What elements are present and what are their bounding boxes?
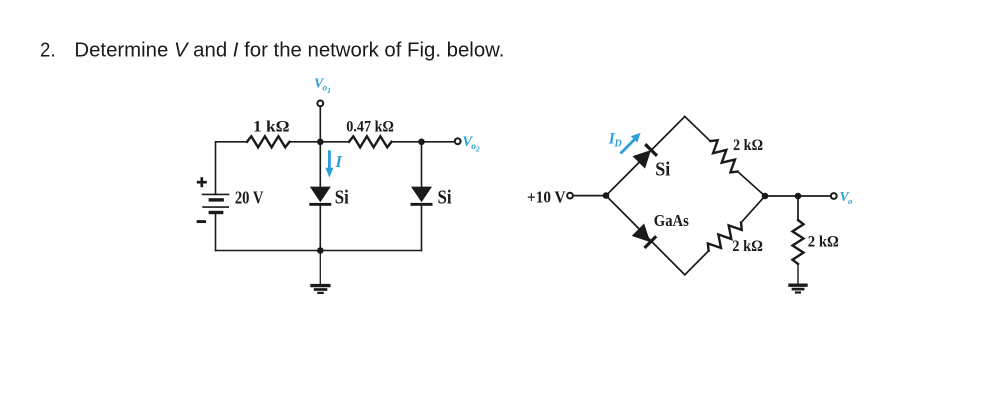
battery plus sign [197, 177, 207, 187]
resistor R4 2 kOhm (bottom-right diagonal) [705, 218, 745, 255]
resistor R5 2 kOhm vertical [793, 220, 804, 264]
wire ground stub left circuit [319, 251, 321, 285]
svg-text:2 kΩ: 2 kΩ [808, 233, 839, 250]
diode D3 Si (bridge top-left edge) [633, 144, 658, 168]
junction node bottom center [317, 247, 324, 254]
svg-text:2 kΩ: 2 kΩ [733, 137, 763, 154]
wire node R to Vo terminal [765, 195, 830, 197]
svg-text:20 V: 20 V [235, 187, 264, 207]
svg-text:I: I [335, 152, 343, 171]
battery E 20 V plates [202, 194, 230, 212]
svg-text:Determine V and I for the netw: Determine V and I for the network of Fig… [74, 40, 504, 62]
junction node above R5 [795, 193, 802, 200]
svg-text:GaAs: GaAs [654, 211, 690, 230]
wire R2 to Vo2 terminal [392, 141, 455, 143]
junction node L (+10V) [603, 192, 610, 199]
svg-text:+10 V: +10 V [527, 188, 566, 207]
wire stub node to Vo1 terminal [319, 107, 321, 142]
terminal Vo2 open circle [455, 138, 461, 144]
junction node top right branch [418, 139, 425, 146]
wire R1 to R2 through node Vo1 [290, 141, 350, 143]
battery minus sign [197, 220, 206, 223]
junction node top center [317, 139, 324, 146]
wire edge B to resistor R4 [685, 251, 709, 275]
wire resistor R4 to node R [741, 196, 765, 223]
wire left rail down to battery [215, 142, 217, 195]
ground symbol right circuit [788, 285, 807, 292]
diode D1 Si (left branch) [309, 187, 331, 206]
resistor R1 1 kOhm zigzag [247, 136, 290, 147]
svg-text:1 kΩ: 1 kΩ [253, 118, 290, 135]
wire edge L to T (with Si diode) [606, 117, 685, 196]
wire center diode branch lower [319, 206, 321, 250]
terminal Vo1 open circle [317, 101, 323, 107]
wire resistor R3 to node R [738, 172, 765, 196]
resistor R3 2 kOhm (top-right diagonal) [706, 137, 742, 175]
wire node to vertical resistor R5 [797, 196, 799, 220]
terminal +10V open circle [567, 193, 573, 199]
wire center diode branch upper [319, 142, 321, 188]
current arrow I (cyan) [325, 150, 333, 177]
wire right diode branch upper [421, 142, 423, 188]
resistor R2 0.47 kOhm zigzag [349, 136, 392, 147]
wire bottom rail [216, 250, 422, 252]
svg-text:2.: 2. [40, 40, 56, 62]
svg-text:Si: Si [655, 160, 671, 181]
wire +10V terminal to node L [574, 195, 607, 197]
junction node R (bridge right vertex) [762, 193, 769, 200]
wire right diode branch lower [421, 206, 423, 250]
ground symbol left circuit [310, 286, 330, 293]
wire edge T to R upper part [685, 117, 711, 142]
diode D4 GaAs (bridge bottom-left edge) [632, 224, 657, 248]
svg-text:Si: Si [438, 188, 452, 209]
wire top-left horizontal (battery to R1) [216, 141, 248, 143]
svg-text:2 kΩ: 2 kΩ [732, 238, 763, 255]
svg-text:Si: Si [335, 188, 349, 209]
wire resistor R5 to ground [797, 264, 799, 284]
diode D2 Si (right branch) [411, 187, 433, 206]
terminal Vo open circle [831, 193, 837, 199]
svg-text:0.47 kΩ: 0.47 kΩ [346, 118, 394, 135]
current arrow ID (cyan) [621, 133, 641, 154]
wire battery to bottom rail [215, 213, 217, 251]
wire edge L to B (GaAs diode) [606, 196, 685, 275]
